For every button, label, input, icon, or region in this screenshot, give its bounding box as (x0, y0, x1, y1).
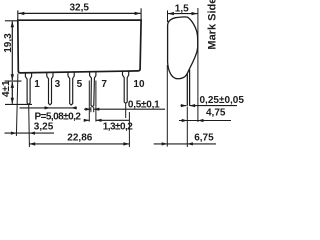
wire: 3,25 left extension (body left plane) (16, 74, 18, 137)
svg-text:7: 7 (101, 79, 107, 90)
wire: 1,3 dimension line with outside arrows at pin7 shoulder (84, 119, 89, 121)
wire: 32,5 right extension (140, 8, 142, 20)
wire: 1,5 dimension line with inside arrows (168, 13, 198, 15)
wire: 3,25 dimension line with outside arrows (5, 132, 55, 134)
wire: left plane extension above body (1,5) (167, 10, 169, 22)
wire: mark side plane line (197, 8, 199, 122)
svg-text:32,5: 32,5 (70, 2, 90, 13)
wire: 19,3 top extension (5, 20, 18, 22)
wire: pin1 center extension (28, 105, 31, 147)
wire: 4+-1 dimension line (11, 82, 13, 104)
svg-text:4,75: 4,75 (206, 107, 226, 118)
svg-text:10: 10 (133, 79, 145, 90)
wire: 32,5 left extension (body left edge extended up) (17, 10, 19, 20)
wire: 22,86 dimension line with inside arrows (29, 143, 129, 145)
pin 7 (90, 72, 96, 107)
svg-text:4±1: 4±1 (1, 80, 12, 97)
wire: P dimension line (pitch, pin3 to pin5, outside arrows) (20, 107, 78, 109)
svg-text:19,3: 19,3 (3, 33, 14, 53)
wire: side pin center extension (186, 107, 188, 148)
svg-text:5: 5 (77, 79, 83, 90)
svg-text:22,86: 22,86 (67, 132, 92, 143)
wire: 19,3 / 4+-1 shared extension at pin neck level (5, 80, 22, 82)
wire: pin10 center extension stub (125, 104, 127, 118)
svg-text:6,75: 6,75 (194, 132, 214, 143)
wire: 4,75 dimension line with outside arrows (179, 120, 231, 122)
svg-text:1,3±0,2: 1,3±0,2 (103, 122, 133, 133)
wire: pin7 stem edge extensions (0,5 dim) (90, 107, 92, 112)
wire: pin7 shoulder edge extensions (1,3 dim) (88, 81, 90, 122)
pin 5 (68, 72, 74, 105)
side view pin (186, 74, 188, 106)
wire: right extension (1,3 end / 22,86 right) (128, 112, 130, 147)
wire: 0,25 dimension line with outside arrows at side pin (181, 105, 187, 107)
pin 3 (47, 72, 53, 104)
svg-text:0,25±0,05: 0,25±0,05 (200, 95, 245, 106)
svg-text:1: 1 (34, 79, 40, 90)
svg-text:Mark Side: Mark Side (206, 0, 218, 50)
wire: 32,5 dimension line (18, 12, 140, 14)
wire: left plane extension below body (6,75) (166, 65, 168, 147)
wire: 4+-1 bottom extension at pin tip level (5, 103, 32, 105)
wire: 0,5 dimension line with outside arrows at pin7 stem (84, 108, 91, 110)
svg-text:3,25: 3,25 (34, 122, 54, 133)
wire: 6,75 dimension line with outside arrows (154, 143, 216, 145)
pin 1 (25, 73, 31, 105)
svg-text:0,5±0,1: 0,5±0,1 (128, 99, 160, 110)
side view body outline (168, 17, 198, 79)
pin 10 (123, 71, 129, 103)
svg-text:1,5: 1,5 (175, 3, 189, 14)
wire: 19,3 dimension line (11, 21, 13, 80)
body outline (front view) (18, 20, 141, 73)
svg-text:3: 3 (55, 79, 61, 90)
